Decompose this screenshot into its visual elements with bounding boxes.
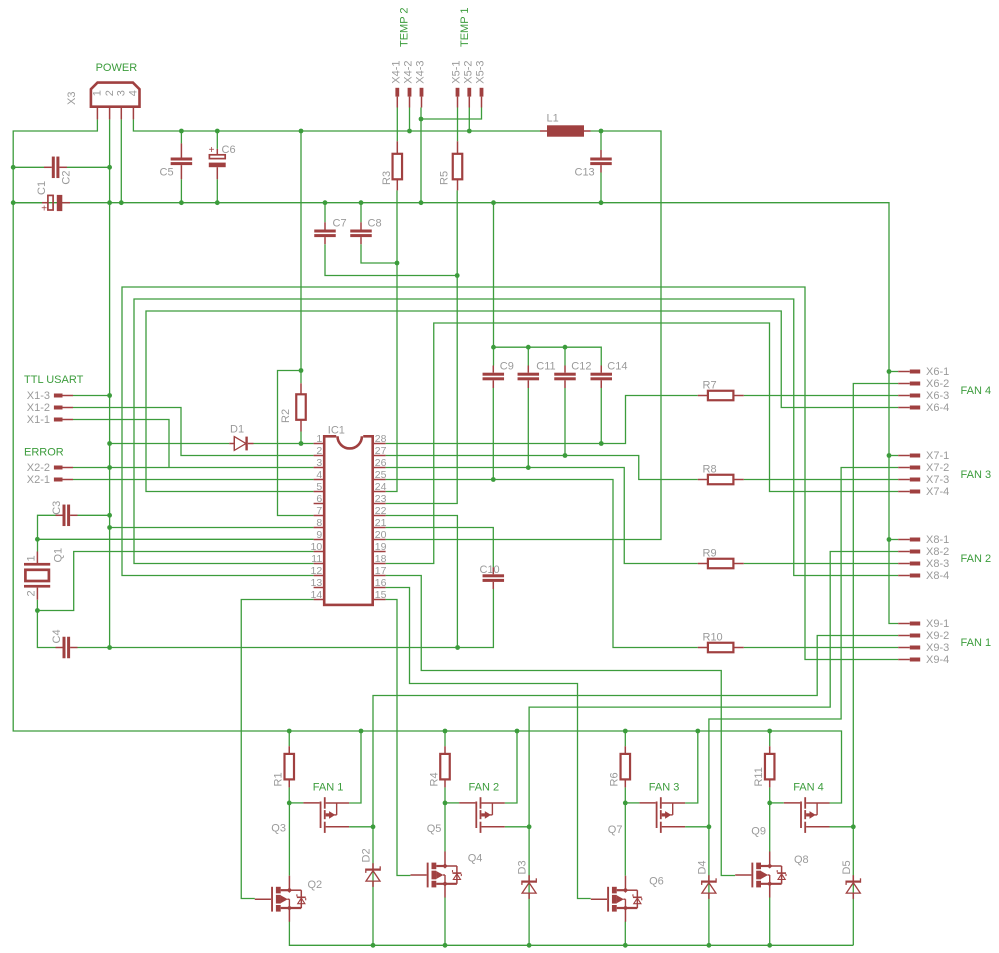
resistor R10 <box>698 643 744 653</box>
wire +12V riser to Q5 source <box>505 731 517 803</box>
svg-text:X5-2: X5-2 <box>462 60 474 83</box>
labels X1-3 X1-2 X1-1 <box>27 390 50 426</box>
label C8 <box>368 217 382 229</box>
inductor L1 <box>540 125 591 136</box>
svg-text:D1: D1 <box>230 424 244 436</box>
wire XTAL2 pin10 <box>37 600 55 648</box>
label Q1 pin 2 <box>26 590 38 596</box>
wire pin15 to Q4 gate <box>386 600 411 876</box>
resistor R2 <box>296 383 306 431</box>
labels X6-1..4 <box>926 366 949 414</box>
net label FAN 2 <box>961 553 992 565</box>
wire GND rail top <box>13 203 898 624</box>
svg-text:C8: C8 <box>368 217 382 229</box>
labels IC1 pin numbers <box>311 433 387 601</box>
wire pin21 to C10 <box>386 528 494 568</box>
label C12 <box>571 360 591 372</box>
wire GND C9 top stub <box>493 347 495 365</box>
wire R9 to X8-3 <box>744 563 899 565</box>
wire GND pin22 riser <box>386 516 458 648</box>
capacitor C14 <box>591 366 613 389</box>
svg-text:Q5: Q5 <box>427 823 442 835</box>
wire AVCC C13 top stub <box>600 131 602 150</box>
wire Q2 drain riser <box>288 803 290 876</box>
label X3 pin numbers <box>92 90 140 96</box>
wire R3 to pin24 <box>386 190 397 491</box>
capacitor C6 <box>209 145 226 203</box>
wire pin14 to Q2 gate <box>241 600 313 899</box>
svg-text:X6-1: X6-1 <box>926 366 949 378</box>
wire GND spine X3-2 <box>109 119 111 647</box>
diode D1 <box>229 437 253 451</box>
wire GND cap rail riser <box>494 203 602 366</box>
label X3 <box>66 92 78 105</box>
svg-text:Q1: Q1 <box>53 548 65 563</box>
wire X1-2 to pin2 <box>73 408 314 456</box>
svg-text:X6-2: X6-2 <box>926 378 949 390</box>
label C14 <box>607 360 627 372</box>
svg-text:25: 25 <box>375 469 387 481</box>
svg-text:X7-1: X7-1 <box>926 450 949 462</box>
wire C12 bottom <box>564 388 566 456</box>
label Q1 <box>53 548 65 563</box>
svg-text:10: 10 <box>311 541 323 553</box>
svg-text:X4-3: X4-3 <box>415 60 427 83</box>
svg-text:15: 15 <box>375 589 387 601</box>
wire Q4 drain riser <box>444 803 446 852</box>
label D1 <box>230 424 244 436</box>
resistor R8 <box>698 475 744 485</box>
label C7 <box>333 217 347 229</box>
transistor Q2 (N-MOSFET) <box>255 876 306 922</box>
wire pin26 to R9 <box>386 468 698 564</box>
svg-text:4: 4 <box>128 90 140 96</box>
net label TEMP 2 <box>399 7 411 47</box>
wire +5V C6 stub <box>216 131 218 149</box>
wire X8-2 to FAN2 drain / D3 <box>529 552 898 946</box>
svg-text:X9-3: X9-3 <box>926 642 949 654</box>
label C2 <box>61 171 73 185</box>
capacitor C11 <box>518 366 540 389</box>
wire R7 to X6-3 <box>744 395 899 397</box>
wire X2-1 to pin4 <box>73 479 314 481</box>
svg-text:FAN 2: FAN 2 <box>961 553 992 565</box>
label R3 <box>381 171 393 185</box>
svg-text:5: 5 <box>316 481 322 493</box>
capacitor C10 <box>483 567 505 589</box>
transistor Q7 (P-MOSFET) <box>639 797 685 833</box>
svg-text:C7: C7 <box>333 217 347 229</box>
svg-text:23: 23 <box>375 493 387 505</box>
wire GND to X8-1 <box>889 539 898 541</box>
label C6 <box>222 144 236 156</box>
net label FAN 4 <box>961 385 992 397</box>
svg-text:2: 2 <box>316 445 322 457</box>
labels X2-2 X2-1 <box>27 462 50 486</box>
wire pin11 to X8-4 <box>134 299 898 576</box>
svg-text:TEMP 1: TEMP 1 <box>459 7 471 47</box>
net label TEMP 1 <box>459 7 471 47</box>
diode D5 <box>846 875 860 899</box>
svg-text:C2: C2 <box>61 171 73 185</box>
wire X1-1 to pin3 <box>73 420 169 468</box>
svg-text:X4-1: X4-1 <box>390 60 402 83</box>
labels X8-1..4 <box>926 534 949 582</box>
svg-text:X6-4: X6-4 <box>926 402 949 414</box>
wire GND to X6-1 <box>889 371 898 373</box>
net label FAN 1 <box>961 637 992 649</box>
svg-text:X1-3: X1-3 <box>27 390 50 402</box>
wire GND to X7-1 <box>889 455 898 457</box>
resistor R1 <box>285 746 295 787</box>
svg-text:12: 12 <box>311 565 323 577</box>
transistor Q5 (P-MOSFET) <box>459 797 505 833</box>
svg-text:C10: C10 <box>480 564 500 576</box>
wire C13 bottom to GND <box>600 173 602 203</box>
label Q7 <box>608 824 623 836</box>
wire +12V stub to R1 <box>288 731 290 746</box>
svg-text:FAN 4: FAN 4 <box>961 385 992 397</box>
capacitor C3 <box>56 505 78 527</box>
label Q4 <box>468 852 483 864</box>
wire Q3 drain <box>349 826 373 828</box>
wire GND X4-3/X5-3 link <box>421 108 482 120</box>
wire pin28 to R7 <box>386 396 698 444</box>
transistor Q4 (N-MOSFET) <box>411 852 462 898</box>
wire GND/X2-2 to pin3 <box>73 467 314 469</box>
svg-text:X8-2: X8-2 <box>926 546 949 558</box>
svg-text:2: 2 <box>104 90 116 96</box>
wire X6-2 to FAN4 drain / D5 <box>853 384 898 946</box>
svg-text:IC1: IC1 <box>328 425 345 437</box>
svg-text:R11: R11 <box>753 767 765 786</box>
svg-text:C1: C1 <box>36 181 48 195</box>
svg-text:13: 13 <box>311 577 323 589</box>
label C1 <box>36 181 48 195</box>
op-amp IC1 (MCU body) <box>314 434 386 605</box>
wire C8 top stub <box>360 203 362 223</box>
svg-text:R6: R6 <box>609 772 621 786</box>
wire Q7 drain <box>685 826 709 828</box>
label Q6 <box>649 875 664 887</box>
svg-text:Q3: Q3 <box>271 823 286 835</box>
svg-text:C4: C4 <box>51 629 63 643</box>
resistor R6 <box>621 746 631 787</box>
label IC1 <box>328 425 345 437</box>
label Q8 <box>794 854 809 866</box>
svg-text:FAN 3: FAN 3 <box>649 782 680 794</box>
svg-text:R9: R9 <box>703 547 717 559</box>
svg-text:X1-1: X1-1 <box>27 414 50 426</box>
svg-text:Q6: Q6 <box>649 875 664 887</box>
wire C9 bottom <box>492 388 494 480</box>
wire GND X4-3 drop <box>420 108 422 203</box>
svg-text:FAN 1: FAN 1 <box>961 637 992 649</box>
wire R1 bottom gate row <box>289 787 303 803</box>
connector pins X1 <box>54 394 73 422</box>
capacitor C4 <box>56 637 78 659</box>
svg-text:D4: D4 <box>696 860 708 874</box>
svg-text:4: 4 <box>316 469 322 481</box>
label R4 <box>428 772 440 786</box>
svg-text:1: 1 <box>92 90 104 96</box>
svg-text:C12: C12 <box>571 360 591 372</box>
svg-text:R7: R7 <box>703 379 717 391</box>
svg-text:20: 20 <box>375 529 387 541</box>
svg-text:X8-4: X8-4 <box>926 570 949 582</box>
svg-text:7: 7 <box>316 505 322 517</box>
svg-text:Q7: Q7 <box>608 824 623 836</box>
label C11 <box>536 360 555 372</box>
svg-text:21: 21 <box>375 517 387 529</box>
wire +12V from X3-1 down left edge to FET rail <box>13 119 841 803</box>
connector pins X7 <box>898 454 920 494</box>
svg-text:R1: R1 <box>273 772 285 786</box>
resistor R4 <box>440 746 450 787</box>
wire FET ground rail <box>289 922 853 946</box>
diode D4 <box>702 875 716 899</box>
wire C8 bottom join <box>361 244 397 263</box>
net label FAN 1 <box>313 782 344 794</box>
svg-text:X9-1: X9-1 <box>926 618 949 630</box>
svg-text:1: 1 <box>26 555 38 561</box>
transistor Q8 (N-MOSFET) <box>735 852 786 898</box>
svg-text:X5-3: X5-3 <box>475 60 487 83</box>
svg-text:ERROR: ERROR <box>24 447 64 459</box>
net label TTL USART <box>24 374 84 386</box>
wire R5 to pin23 <box>386 190 458 503</box>
svg-text:2: 2 <box>26 590 38 596</box>
label Q5 <box>427 823 442 835</box>
svg-text:X7-2: X7-2 <box>926 462 949 474</box>
label R9 <box>703 547 717 559</box>
wire R4 bottom gate row <box>445 787 459 803</box>
wire AVCC L1 to pin20 <box>386 131 661 540</box>
wire XTAL1 pin9 row <box>37 538 313 540</box>
svg-text:C13: C13 <box>575 167 595 179</box>
label C9 <box>500 360 514 372</box>
svg-text:FAN 1: FAN 1 <box>313 782 344 794</box>
wire GND pin8 <box>110 527 314 529</box>
label C5 <box>160 167 174 179</box>
wire Q6 drain riser <box>624 803 626 876</box>
wire Q8 source drop <box>769 897 771 945</box>
net label FAN 3 <box>961 469 992 481</box>
wire D1 cathode to pin1 <box>254 443 314 445</box>
connector pins X5 <box>456 88 484 108</box>
label D4 <box>696 860 708 874</box>
wire Q6 source drop <box>624 922 626 946</box>
wire pin5 to X6-4 <box>146 311 898 492</box>
svg-text:FAN 2: FAN 2 <box>469 782 500 794</box>
svg-text:22: 22 <box>375 505 387 517</box>
svg-text:C3: C3 <box>51 501 63 515</box>
svg-text:X9-2: X9-2 <box>926 630 949 642</box>
wire GND C11 top stub <box>527 347 529 365</box>
resistor R11 <box>765 746 775 787</box>
label R10 <box>703 631 723 643</box>
wire GND to D1 anode <box>110 443 230 445</box>
svg-text:D2: D2 <box>361 848 373 862</box>
svg-text:19: 19 <box>375 541 387 553</box>
svg-text:C11: C11 <box>536 360 555 372</box>
svg-text:TTL USART: TTL USART <box>24 374 84 386</box>
svg-text:X7-4: X7-4 <box>926 486 949 498</box>
svg-text:R5: R5 <box>438 171 450 185</box>
label R1 <box>273 772 285 786</box>
svg-text:C6: C6 <box>222 144 236 156</box>
capacitor C7 <box>314 222 336 244</box>
svg-text:9: 9 <box>316 529 322 541</box>
capacitor C8 <box>350 222 372 244</box>
svg-text:X8-3: X8-3 <box>926 558 949 570</box>
svg-text:R3: R3 <box>381 171 393 185</box>
svg-text:Q2: Q2 <box>308 879 323 891</box>
wire pin25 to R10 <box>386 480 698 648</box>
svg-text:FAN 3: FAN 3 <box>961 469 992 481</box>
wire R11 bottom gate row <box>770 787 784 803</box>
svg-text:X9-4: X9-4 <box>926 654 949 666</box>
labels X9-1..4 <box>926 618 949 666</box>
label D3 <box>517 860 529 874</box>
svg-text:X3: X3 <box>66 92 78 105</box>
net label FAN 2 <box>469 782 500 794</box>
svg-text:18: 18 <box>375 553 387 565</box>
diode D3 <box>522 875 536 899</box>
svg-text:1: 1 <box>316 433 322 445</box>
capacitor C13 <box>590 150 612 173</box>
wire +5V R2 riser and pin7 VCC <box>278 131 314 516</box>
capacitor C2 <box>13 157 109 179</box>
connector pins X8 <box>898 538 920 578</box>
svg-text:Q8: Q8 <box>794 854 809 866</box>
svg-text:3: 3 <box>316 457 322 469</box>
label C13 <box>575 167 595 179</box>
wire +12V riser to Q7 source <box>685 731 698 803</box>
svg-text:FAN 4: FAN 4 <box>793 782 824 794</box>
wire GND X1-3 <box>73 395 110 397</box>
wire R8 to X7-3 <box>744 479 899 481</box>
wire X5-1 to R5 <box>457 108 459 142</box>
svg-text:X8-1: X8-1 <box>926 534 949 546</box>
wire X4-1 to R3 <box>396 108 398 142</box>
svg-text:X5-1: X5-1 <box>451 60 463 83</box>
svg-text:16: 16 <box>375 577 387 589</box>
wire R2 bottom <box>300 432 302 444</box>
label Q1 pin 1 <box>26 555 38 561</box>
label C10 <box>480 564 500 576</box>
wire pin16 to Q6 gate <box>386 588 591 899</box>
transistor Q9 (P-MOSFET) <box>784 797 830 833</box>
wire C7 top stub <box>324 203 326 223</box>
wire GND X3-3 drop <box>120 119 122 202</box>
wire +12V stub to R6 <box>624 731 626 746</box>
wire pin18 to X7-4 <box>386 323 899 564</box>
label D5 <box>841 860 853 874</box>
capacitor C9 <box>483 366 505 389</box>
svg-text:L1: L1 <box>547 113 559 125</box>
svg-text:6: 6 <box>316 493 322 505</box>
wire C7 bottom join <box>325 244 457 275</box>
svg-text:C14: C14 <box>607 360 627 372</box>
svg-text:27: 27 <box>375 445 387 457</box>
wire pin12 to X9-4 <box>122 287 898 660</box>
svg-text:R10: R10 <box>703 631 723 643</box>
svg-text:TEMP 2: TEMP 2 <box>399 7 411 47</box>
transistor Q3 (P-MOSFET) <box>303 797 349 833</box>
resistor R9 <box>698 559 744 569</box>
wire R6 bottom gate row <box>625 787 639 803</box>
wire Q4 source drop <box>444 897 446 945</box>
wire +12V stub to R4 <box>444 731 446 746</box>
capacitor C5 <box>171 143 193 202</box>
capacitor C1 <box>13 195 70 215</box>
label R7 <box>703 379 717 391</box>
labels X7-1..4 <box>926 450 949 498</box>
wire X7-2 to FAN3 drain / D4 <box>709 468 898 946</box>
wire GND C3 right <box>78 514 110 516</box>
svg-text:17: 17 <box>375 565 387 577</box>
wire Q5 drain <box>505 826 529 828</box>
net label POWER <box>96 62 138 74</box>
svg-text:11: 11 <box>311 553 322 565</box>
label R2 <box>280 409 292 423</box>
wire X9-2 to FAN1 drain / D2 <box>373 636 898 946</box>
wire +5V X4-2 drop <box>409 108 411 132</box>
diode D2 <box>366 863 380 887</box>
label R11 <box>753 767 765 786</box>
connector pins X9 <box>898 622 920 662</box>
svg-text:+: + <box>41 204 47 215</box>
wire pin17 to Q8 gate <box>386 576 735 876</box>
capacitor C12 <box>554 366 576 389</box>
resistor R3 <box>393 141 403 190</box>
svg-text:X1-2: X1-2 <box>27 402 50 414</box>
wire +12V riser to Q3 source <box>349 731 361 803</box>
label R8 <box>703 463 717 475</box>
svg-text:+: + <box>209 145 215 156</box>
connector pins X4 <box>395 88 423 108</box>
svg-text:D5: D5 <box>841 860 853 874</box>
svg-text:24: 24 <box>375 481 387 493</box>
wire GND C12 top stub <box>564 347 566 365</box>
wire GND row to C4/C10 <box>78 589 494 648</box>
wire XTAL2 link up <box>37 552 313 611</box>
svg-text:R2: R2 <box>280 409 292 423</box>
resistor R7 <box>698 391 744 401</box>
svg-text:14: 14 <box>311 589 323 601</box>
labels X4-1 X4-2 X4-3 <box>390 60 426 83</box>
svg-text:X2-2: X2-2 <box>27 462 50 474</box>
label L1 <box>547 113 559 125</box>
wire +12V stub to R11 <box>769 731 771 746</box>
svg-text:X4-2: X4-2 <box>403 60 415 83</box>
svg-text:Q9: Q9 <box>751 825 766 837</box>
label Q9 <box>751 825 766 837</box>
wire C11 bottom <box>527 388 529 468</box>
crystal Q1 <box>24 552 50 600</box>
wire +5V C5 stub <box>180 131 182 143</box>
label D2 <box>361 848 373 862</box>
net label FAN 3 <box>649 782 680 794</box>
svg-text:28: 28 <box>375 433 387 445</box>
label R5 <box>438 171 450 185</box>
wire C14 bottom <box>600 388 602 444</box>
label Q3 <box>271 823 286 835</box>
svg-text:26: 26 <box>375 457 387 469</box>
svg-text:POWER: POWER <box>96 62 138 74</box>
wire pin27 to R8 <box>386 456 698 480</box>
